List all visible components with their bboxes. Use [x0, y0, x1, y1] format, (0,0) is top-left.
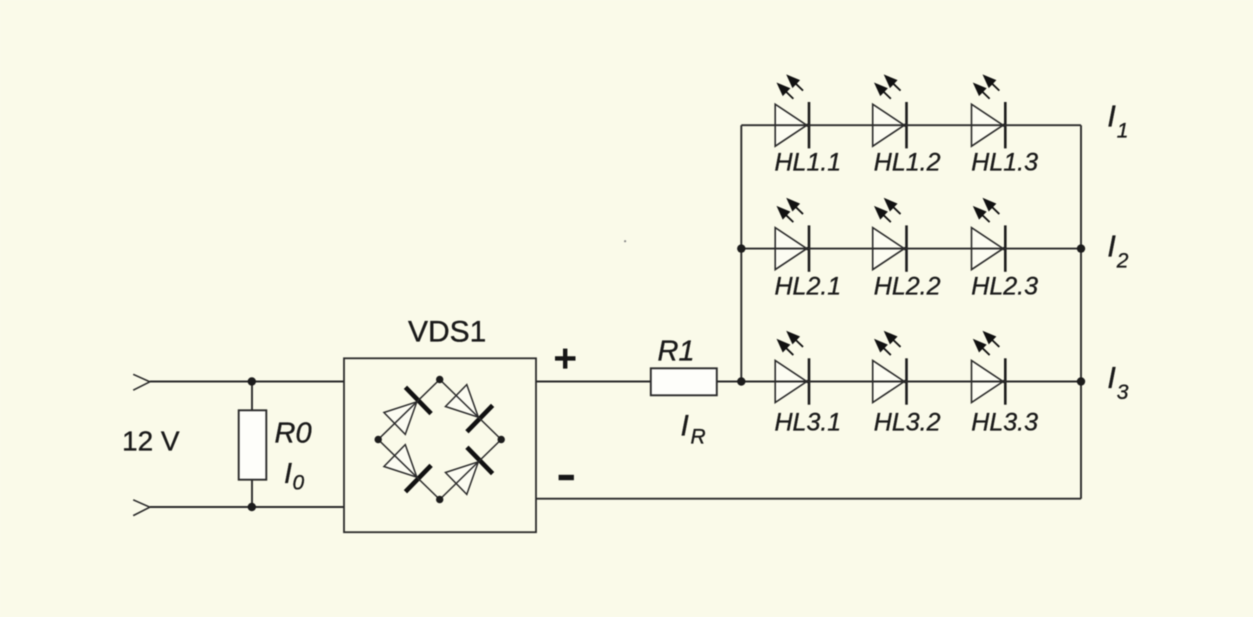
speck artifact — [624, 240, 626, 242]
svg-text:HL1.2: HL1.2 — [874, 148, 941, 176]
svg-text:I: I — [1107, 360, 1116, 395]
node bridge left — [375, 436, 382, 443]
node row3 left junction — [737, 377, 745, 385]
svg-text:HL3.2: HL3.2 — [874, 408, 941, 436]
wire bridge edge left-bottom — [378, 440, 440, 500]
wire row2 — [741, 248, 1081, 250]
wire bridge edge left-top — [378, 380, 440, 440]
wire row3 from R1 to right bus — [717, 381, 1081, 383]
wire row1 — [741, 124, 1081, 126]
node row3 right junction — [1077, 377, 1085, 385]
svg-text:HL3.1: HL3.1 — [775, 408, 842, 436]
node bridge right — [498, 436, 505, 443]
wire left vertical bus — [740, 125, 742, 381]
node row2 left junction — [737, 244, 745, 252]
LED HL1.1 — [773, 70, 809, 148]
node bridge top — [436, 376, 443, 383]
svg-text:HL1.3: HL1.3 — [971, 148, 1038, 176]
diode VD2 (top-right arm) — [443, 382, 492, 431]
svg-text:HL3.3: HL3.3 — [971, 408, 1038, 436]
svg-text:3: 3 — [1117, 381, 1129, 404]
LED HL3.3 — [969, 327, 1005, 405]
LED HL2.1 — [773, 194, 809, 272]
resistor R1 — [651, 368, 717, 395]
diode VD3 (left-bottom arm) — [382, 442, 431, 491]
wire bridge edge top-right — [440, 380, 502, 440]
svg-text:2: 2 — [1116, 250, 1129, 273]
wire R0 bottom lead — [251, 480, 253, 508]
resistor R0 — [239, 410, 267, 479]
svg-text:R: R — [691, 426, 706, 449]
label plus terminal — [555, 349, 576, 369]
LED HL3.2 — [870, 327, 906, 405]
svg-text:I: I — [284, 458, 292, 490]
LED HL2.3 — [969, 194, 1005, 272]
svg-text:HL2.1: HL2.1 — [775, 272, 842, 300]
label I0 — [284, 458, 305, 495]
label minus terminal — [559, 475, 574, 480]
input terminal bottom chevron — [133, 500, 150, 516]
label IR — [681, 410, 706, 449]
svg-text:12 V: 12 V — [122, 426, 180, 457]
node top input junction — [248, 377, 256, 385]
wire right vertical bus — [1080, 125, 1082, 499]
svg-text:I: I — [1107, 228, 1116, 263]
wire top input — [150, 381, 344, 383]
diode VD4 (bottom-right arm) — [443, 447, 492, 496]
wire minus return — [536, 498, 1081, 500]
svg-text:0: 0 — [293, 472, 305, 495]
svg-text:HL1.1: HL1.1 — [775, 148, 842, 176]
svg-text:R0: R0 — [275, 418, 312, 450]
wire bottom input — [150, 506, 344, 508]
wire R0 top lead — [251, 382, 253, 411]
svg-text:I: I — [681, 410, 689, 443]
wire plus output to R1 — [536, 381, 651, 383]
node row2 right junction — [1077, 244, 1085, 252]
svg-text:HL2.2: HL2.2 — [874, 272, 941, 300]
label I1 — [1107, 98, 1128, 142]
LED HL3.1 — [773, 327, 809, 405]
input terminal top chevron — [133, 374, 150, 390]
bridge rectifier VDS1 box — [344, 358, 536, 532]
diode VD1 (left-top arm) — [382, 387, 431, 436]
LED HL1.3 — [969, 70, 1005, 148]
svg-text:R1: R1 — [658, 336, 695, 368]
wire bridge edge bottom-right — [440, 440, 502, 500]
label I2 — [1107, 228, 1129, 272]
svg-text:HL2.3: HL2.3 — [971, 272, 1038, 300]
svg-text:I: I — [1107, 98, 1116, 133]
LED HL2.2 — [870, 194, 906, 272]
label I3 — [1107, 360, 1129, 404]
LED HL1.2 — [870, 70, 906, 148]
svg-text:1: 1 — [1117, 120, 1129, 143]
node bridge bottom — [436, 496, 443, 503]
svg-text:VDS1: VDS1 — [408, 316, 486, 349]
node bottom input junction — [248, 503, 256, 511]
